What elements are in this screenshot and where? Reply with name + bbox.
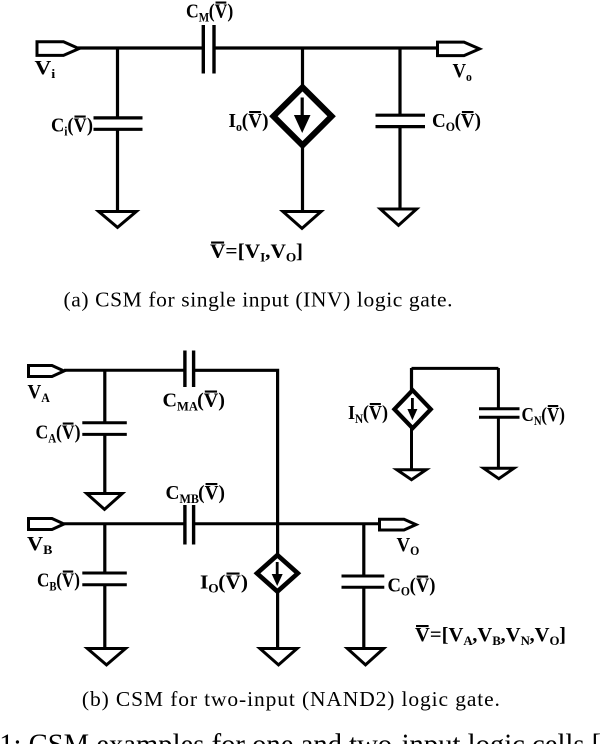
capacitor CMA (183, 351, 186, 388)
wire: CMB to VO port (node B) (193, 522, 380, 525)
wire: CA to ground (103, 434, 106, 493)
label CMA (163, 390, 225, 414)
svg-text:): ) (75, 422, 81, 444)
svg-text:V: V (369, 402, 382, 424)
label Vi (35, 56, 56, 81)
svg-text:V: V (547, 404, 560, 427)
wire: node Vi down to Ci (116, 48, 119, 118)
svg-text:): ) (475, 111, 481, 133)
svg-text:V: V (35, 56, 52, 78)
label Io (229, 111, 269, 135)
svg-text:=[: =[ (430, 624, 449, 646)
wire: node B down to Co (b) (362, 524, 365, 577)
capacitor Co (b) (342, 575, 385, 578)
wire: VB to CMB (64, 522, 186, 525)
svg-text:V: V (215, 1, 228, 23)
label In (348, 402, 388, 426)
capacitor CB (82, 572, 127, 575)
current source In (394, 390, 430, 428)
label CMB (166, 482, 225, 507)
wire: Io bottom to ground (301, 146, 304, 211)
ground (Io) (283, 212, 321, 229)
svg-text:V: V (448, 624, 463, 646)
svg-text:): ) (382, 402, 388, 424)
wire: Io (b) bottom to ground (276, 592, 279, 648)
capacitor CMB (183, 505, 186, 545)
svg-text:(: ( (56, 422, 62, 444)
svg-text:V: V (27, 532, 44, 555)
label VO (397, 535, 420, 559)
svg-text:): ) (262, 111, 268, 132)
svg-text:V: V (225, 572, 240, 593)
svg-text:M: M (199, 10, 209, 25)
svg-text:): ) (429, 575, 435, 597)
wire: Cn to ground (497, 417, 500, 468)
capacitor CM (202, 25, 205, 74)
wire: CB to ground (103, 584, 106, 648)
label CB (37, 569, 80, 594)
svg-text:1: CSM examples for one and tw: 1: CSM examples for one and two-input lo… (0, 728, 600, 744)
label CM (186, 1, 233, 25)
output port VO (380, 519, 417, 530)
net label V=[VA,VB,VN,VO] (415, 624, 566, 648)
label Vo (453, 61, 472, 85)
ground (CB) (87, 649, 125, 665)
svg-text:C: C (36, 422, 49, 444)
wire: CMA to corner, down through node B to Io (193, 370, 278, 555)
svg-text:o: o (466, 70, 472, 84)
svg-text:V: V (535, 624, 550, 646)
svg-text:C: C (37, 569, 49, 592)
label Co (432, 111, 481, 135)
ground (Io b) (260, 649, 297, 665)
capacitor CA (82, 421, 127, 424)
svg-text:C: C (522, 404, 534, 427)
input port Vi (37, 42, 79, 56)
label VB (27, 532, 53, 557)
svg-text:(: ( (455, 111, 461, 133)
svg-text:V: V (62, 422, 75, 444)
svg-text:V: V (204, 390, 219, 412)
current source Io (273, 87, 331, 145)
svg-text:]: ] (559, 624, 566, 646)
svg-text:I: I (348, 402, 355, 424)
svg-text:C: C (166, 482, 180, 504)
ground (Co) (380, 209, 416, 225)
svg-text:O: O (401, 584, 410, 598)
svg-text:MB: MB (179, 492, 198, 506)
svg-text:C: C (432, 111, 446, 133)
svg-text:(: ( (209, 1, 215, 23)
svg-text:O: O (208, 581, 218, 595)
ground (Ci) (99, 212, 137, 228)
svg-text:O: O (286, 250, 296, 264)
capacitor Ci (94, 116, 143, 119)
ground (CA) (87, 494, 123, 510)
svg-text:): ) (74, 569, 80, 592)
svg-text:=[: =[ (225, 241, 244, 262)
wire: node VB down to CB (103, 524, 106, 573)
svg-text:MA: MA (177, 400, 198, 414)
svg-text:V: V (248, 111, 262, 132)
svg-text:(: ( (67, 115, 73, 137)
svg-text:): ) (227, 1, 233, 23)
output port Vo (438, 42, 480, 56)
input port VA (29, 366, 65, 377)
label Co (b) (388, 575, 436, 599)
svg-text:V: V (245, 241, 260, 262)
svg-text:]: ] (296, 241, 303, 262)
current source Io (b) (257, 555, 298, 591)
svg-text:(: ( (410, 575, 416, 597)
svg-text:V: V (415, 624, 430, 646)
svg-text:): ) (218, 390, 225, 412)
svg-text:A: A (41, 391, 50, 405)
svg-text:i: i (51, 67, 55, 81)
wire: node to Io top (301, 48, 304, 87)
wire: node Vo down to Co (398, 48, 401, 116)
svg-text:V: V (210, 241, 225, 262)
capacitor Co (376, 114, 426, 117)
svg-text:(: ( (363, 402, 369, 424)
svg-text:C: C (388, 575, 401, 597)
label Ci (51, 115, 93, 139)
svg-text:): ) (219, 482, 225, 504)
svg-text:(a) CSM for single input (INV): (a) CSM for single input (INV) logic gat… (64, 288, 453, 312)
svg-text:(: ( (198, 482, 204, 504)
svg-text:(b) CSM for two-input (NAND2): (b) CSM for two-input (NAND2) logic gate… (82, 687, 500, 711)
wire: Co (b) to ground (362, 587, 365, 648)
svg-text:): ) (87, 115, 93, 137)
svg-text:): ) (559, 404, 565, 427)
svg-text:(: ( (541, 404, 547, 427)
wire: internal node N (412, 367, 499, 370)
svg-text:V: V (270, 241, 285, 262)
svg-text:(: ( (56, 569, 62, 592)
svg-text:I: I (200, 572, 208, 593)
wire: Ci to ground (116, 129, 119, 211)
svg-text:O: O (446, 120, 455, 134)
ground (In) (397, 470, 426, 480)
svg-text:V: V (477, 624, 492, 646)
wire: node VA down to CA (103, 370, 106, 423)
svg-text:N: N (521, 634, 530, 648)
svg-text:(: ( (242, 111, 248, 132)
svg-text:V: V (416, 575, 429, 597)
svg-text:B: B (43, 543, 52, 557)
svg-text:I: I (229, 111, 236, 132)
svg-text:C: C (163, 390, 178, 412)
label CA (36, 422, 81, 446)
wire: Vi to CM left plate (78, 46, 205, 49)
svg-text:V: V (28, 382, 42, 404)
wire: node N down to In (410, 368, 413, 392)
wire: In to ground (410, 427, 413, 470)
wire: node N down to Cn (497, 368, 500, 410)
wire: VA to CMA (64, 369, 186, 372)
ground (Cn) (484, 468, 514, 478)
wire: CM right plate to Vo port (213, 46, 437, 49)
svg-text:): ) (241, 572, 248, 593)
svg-text:V: V (461, 111, 475, 133)
wire: Co to ground (398, 127, 401, 209)
ground (Co b) (347, 649, 383, 665)
svg-text:C: C (186, 1, 199, 23)
input port VB (29, 519, 65, 530)
svg-text:O: O (410, 544, 419, 558)
svg-text:C: C (51, 115, 64, 137)
label Io (b) (200, 572, 248, 596)
label VA (28, 382, 51, 406)
svg-text:V: V (397, 535, 411, 557)
svg-text:V: V (74, 115, 87, 137)
svg-text:V: V (506, 624, 521, 646)
capacitor Cn (479, 407, 520, 410)
label Cn (522, 404, 566, 429)
svg-text:V: V (62, 569, 75, 592)
svg-text:V: V (453, 61, 467, 83)
net label V=[VI,VO] (210, 241, 303, 265)
